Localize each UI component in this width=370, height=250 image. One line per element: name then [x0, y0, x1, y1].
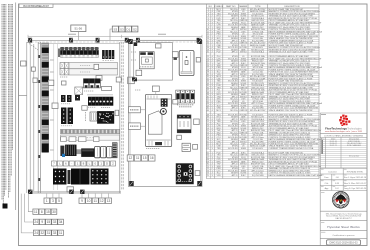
svg-text:APT-D: APT-D: [232, 174, 239, 177]
soft starter: [179, 51, 194, 76]
svg-text:9: 9: [41, 220, 43, 224]
svg-text:12: 12: [129, 156, 133, 160]
drive callout: [152, 86, 159, 94]
wiring duct upper: [69, 63, 118, 69]
svg-text:D.K: D.K: [335, 188, 339, 190]
note column rule: [15, 3, 17, 211]
door label box2: [33, 78, 37, 83]
svg-text:Certification in process: Certification in process: [333, 234, 356, 237]
svg-text:ST-30 600V: ST-30 600V: [252, 148, 263, 150]
svg-text:www.flowtechnologies.co.kr | s: www.flowtechnologies.co.kr | since 1985: [325, 130, 363, 133]
label box 13: [96, 76, 102, 81]
svg-text:12: 12: [100, 199, 104, 203]
svg-text:SIZE CHANGED: SIZE CHANGED: [347, 144, 362, 147]
svg-text:MITSU: MITSU: [240, 52, 247, 54]
stub leaders row1: [47, 194, 109, 198]
contactor label: [194, 119, 200, 125]
hmi label: [136, 70, 142, 75]
left panel frame: [28, 42, 121, 193]
svg-text:PLC CONTROL PANEL LAYOUT: PLC CONTROL PANEL LAYOUT: [23, 4, 49, 8]
svg-text:31: 31: [47, 231, 51, 235]
svg-text:CONTROL PANEL ASSEMBLY DRAWING: CONTROL PANEL ASSEMBLY DRAWING: [324, 134, 364, 137]
svg-text:SPACE HEATER 220V 100W W/ THER: SPACE HEATER 220V 100W W/ THERMOSTAT: [269, 109, 314, 112]
relay row label: [82, 106, 87, 111]
svg-text:S.W: S.W: [335, 183, 339, 185]
svg-text:SYMBOL: SYMBOL: [214, 6, 224, 8]
vertical wiring duct: [42, 43, 49, 152]
svg-text:19.07.21: 19.07.21: [330, 145, 337, 147]
svg-text:32: 32: [41, 231, 45, 235]
mccb cluster: [176, 90, 195, 107]
dimension line top: [28, 34, 202, 38]
main breaker row: [53, 169, 109, 185]
hmi device: [139, 52, 154, 69]
svg-text:FAX 02-853-0717: FAX 02-853-0717: [336, 217, 353, 220]
logo wordmark: [325, 126, 362, 130]
subpanel brackets: [132, 43, 137, 82]
svg-text:24: 24: [34, 220, 38, 224]
dark unit single: [75, 95, 80, 101]
svg-text:13: 13: [107, 199, 111, 203]
coupler gray: [77, 149, 82, 154]
label row boxes: [52, 161, 116, 166]
inner subpanel: [134, 43, 173, 81]
svg-text:SV055IG5A-4: SV055IG5A-4: [251, 51, 264, 54]
aux box W2: [182, 143, 190, 151]
svg-text:-: -: [71, 162, 72, 166]
gap label boxes: [116, 77, 134, 84]
drawing reference box: [19, 4, 53, 8]
vertical text marks: [85, 112, 87, 121]
callout row 2: [33, 209, 57, 214]
label row four: [127, 155, 155, 161]
svg-text:TYPE: TYPE: [255, 6, 261, 8]
revision table: [320, 137, 367, 168]
svg-text:Technologies: Technologies: [347, 127, 362, 130]
svg-text:33: 33: [53, 231, 57, 235]
leader row 3: [25, 194, 34, 222]
svg-text:DESCRIPTION: DESCRIPTION: [285, 6, 300, 8]
drive label H850: [129, 123, 146, 130]
section line: [19, 95, 27, 97]
tiny corner note: [321, 114, 326, 116]
svg-text:CURRENT TRANSFORMER 100/5A CL1: CURRENT TRANSFORMER 100/5A CL1.0 15VA: [269, 147, 314, 150]
label box small2: [52, 103, 58, 109]
contactor group: [84, 79, 101, 88]
svg-text:HYUNDAI STEEL: HYUNDAI STEEL: [347, 170, 364, 173]
svg-text:S3: S3: [120, 27, 124, 31]
relay bank row: [88, 97, 113, 106]
svg-text:15: 15: [47, 220, 51, 224]
svg-text:TERMINAL BLOCK 600V 30A ST-30: TERMINAL BLOCK 600V 30A ST-30 RAIL TYPE: [269, 51, 314, 54]
callout row 1 left: [44, 198, 62, 203]
svg-text:34: 34: [59, 220, 63, 224]
soft starter label: [172, 52, 178, 58]
duct label box: [94, 64, 99, 69]
svg-text:15: 15: [46, 210, 50, 214]
reserve box X: [75, 87, 83, 95]
title label: [321, 221, 324, 223]
svg-text:Description: Description: [349, 154, 359, 157]
svg-text:11: 11: [34, 210, 38, 214]
component column line: [57, 44, 59, 190]
svg-text:Description: Description: [349, 137, 359, 140]
note text column left: [2, 4, 13, 204]
svg-text:15: 15: [143, 156, 147, 160]
svg-text:11: 11: [94, 199, 98, 203]
bottom brackets: [28, 190, 85, 194]
relay pair upper: [61, 95, 72, 102]
logo pinwheel red: [339, 115, 350, 126]
svg-text:3: 3: [52, 199, 54, 203]
ab mark: [174, 57, 177, 60]
margin label box: [21, 61, 27, 66]
callout row 4: [33, 230, 63, 235]
subpanel top box: [156, 44, 162, 48]
svg-text:S2: S2: [133, 27, 137, 31]
svg-text:MC-32a: MC-32a: [230, 110, 238, 112]
capacitor units: [95, 147, 112, 158]
title block border: [320, 113, 367, 246]
breaker row top: [60, 47, 98, 57]
svg-text:9: 9: [81, 199, 83, 203]
right panel corner brackets: [128, 39, 202, 186]
svg-text:MC-32a AC220V: MC-32a AC220V: [250, 109, 266, 112]
leader row 4: [21, 194, 33, 233]
rule under title: [320, 230, 367, 232]
svg-text:IDEC: IDEC: [241, 175, 246, 177]
label boxes mid: [61, 137, 99, 142]
BOM header text: [209, 5, 300, 8]
svg-text:Jung D. Kyu 2019.05.20: Jung D. Kyu 2019.05.20: [344, 188, 367, 190]
svg-text:EOCR-SS: EOCR-SS: [228, 148, 238, 150]
right panel frame: [129, 40, 203, 186]
label box small: [62, 81, 67, 85]
contactor right: [177, 115, 191, 133]
tall tower pair: [61, 108, 73, 125]
extra label boxes right panel: [173, 58, 201, 140]
svg-text:SIEM: SIEM: [241, 148, 246, 150]
svg-text:APT-D: APT-D: [232, 51, 239, 54]
leader tick marks: [50, 60, 54, 150]
filter block: [81, 148, 94, 157]
drawing number box: [327, 240, 361, 245]
aux box label: [193, 144, 198, 149]
rule under stamp: [320, 210, 367, 212]
inner dim line: [53, 44, 55, 190]
svg-text:MAKER: MAKER: [239, 5, 247, 8]
svg-text:16: 16: [150, 156, 154, 160]
inverter drive: [146, 94, 172, 146]
terminal strip vertical: [112, 143, 117, 158]
panel gap lines: [122, 42, 123, 190]
svg-text:EARTH LEAKAGE BREAKER EBS33Fb: EARTH LEAKAGE BREAKER EBS33Fb 30AF 15AT …: [269, 174, 323, 177]
svg-text:10: 10: [87, 199, 91, 203]
svg-text:11: 11: [59, 231, 63, 235]
breaker label box: [67, 187, 74, 192]
label box mid-left: [48, 80, 54, 86]
BOM table frame: [206, 8, 319, 176]
motor starter: [176, 164, 194, 185]
terminal row horizontal: [61, 129, 120, 133]
svg-text:24: 24: [34, 231, 38, 235]
mid rail line: [87, 94, 113, 96]
wiring duct lower: [69, 69, 118, 75]
callout box N5-N6: [71, 25, 86, 40]
busbar blocks: [42, 48, 49, 153]
rule above number: [320, 237, 367, 239]
wiring duct third: [61, 135, 120, 140]
panel top rail: [28, 40, 203, 42]
svg-text:33: 33: [53, 220, 57, 224]
BOM row text: [207, 8, 323, 177]
hinge marks: [38, 55, 40, 181]
callout row 1 right: [79, 198, 112, 203]
svg-text:5: 5: [58, 199, 60, 203]
svg-text:PART NO: PART NO: [226, 5, 236, 8]
svg-text:51-56: 51-56: [74, 27, 82, 31]
svg-text:FlowTechnology: FlowTechnology: [325, 126, 347, 130]
svg-text:S3: S3: [114, 27, 118, 31]
svg-text:11: 11: [136, 156, 140, 160]
seal label: [321, 191, 325, 193]
comb endcap: [58, 49, 60, 58]
rule above title: [320, 220, 367, 222]
note end marker: [3, 204, 8, 209]
starter label: [195, 171, 200, 176]
door edge lines: [27, 42, 38, 193]
small box right: [115, 110, 119, 115]
svg-text:Woo S. Won 2019.05.17: Woo S. Won 2019.05.17: [344, 183, 367, 185]
svg-text:SQ-250 NFB: SQ-250 NFB: [252, 175, 264, 177]
svg-text:Hyundai Steel Works: Hyundai Steel Works: [327, 225, 360, 229]
svg-text:30: 30: [52, 210, 56, 214]
svg-text:Kim J. Hyun 2019.05.16: Kim J. Hyun 2019.05.16: [344, 177, 367, 179]
tiny annotation marks: [60, 52, 189, 182]
contactor label wide: [102, 86, 112, 90]
address block: [325, 213, 362, 220]
svg-text:J.H: J.H: [335, 177, 339, 179]
callout group S boxes: [110, 26, 138, 40]
stamp seal: [333, 192, 350, 209]
terminal grid: [60, 63, 69, 75]
svg-text:Customer: Customer: [328, 170, 337, 173]
svg-text:OMRON: OMRON: [239, 110, 247, 112]
lifting brackets top: [28, 38, 200, 43]
breaker group right: [102, 50, 114, 61]
svg-text:DWG ELD-2019-0516-03: DWG ELD-2019-0516-03: [329, 242, 358, 245]
left panel top line: [38, 43, 120, 45]
fuse comb block: [65, 145, 76, 156]
filter box: [90, 112, 97, 121]
leader row 2: [28, 194, 33, 212]
svg-text:1: 1: [46, 199, 48, 203]
door label box: [31, 67, 35, 71]
sensor blue: [60, 146, 65, 157]
drive label L5L7: [129, 107, 146, 113]
rule under logo: [320, 132, 367, 134]
callout row 3: [33, 219, 63, 224]
cert label: [321, 231, 325, 233]
svg-text:D1: D1: [126, 27, 130, 31]
field rows: [320, 168, 367, 190]
svg-text:NO: NO: [209, 6, 213, 8]
plc block: [97, 111, 114, 124]
svg-text:8: 8: [41, 210, 43, 214]
